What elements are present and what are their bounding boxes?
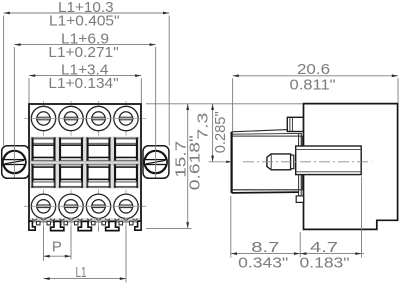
dimension L1+6.9 / L1+0.271in [14,44,155,46]
svg-text:0.811": 0.811" [290,77,336,94]
svg-text:L1+0.271": L1+0.271" [48,44,118,61]
pole 3 lower clamp box [87,165,110,188]
front view bottom rail band [30,218,140,222]
dimension P [44,255,72,257]
svg-text:0.618": 0.618" [187,135,204,190]
dimension L1+10.3 / L1+0.405in [4,12,170,14]
pole 3 bottom screw [86,194,110,218]
centerline leader arrow [209,161,232,163]
side view pin collar [291,155,294,169]
front view body outline [29,104,141,221]
pole 4 bottom screw [114,194,138,218]
side view plug body face [232,136,303,190]
dimension L1+3.4 / L1+0.134in [29,75,141,77]
pole 1 top screw [31,106,55,130]
bottom screw row horizontal centerline [24,205,146,207]
pole 1 vertical centerline (bottom) [43,190,45,226]
pole 2 bottom screw [59,194,83,218]
pole 2 bottom latch tabs [64,221,68,225]
mounting foot 3 [106,221,119,230]
side view plug left edge [231,132,233,193]
pole 1 upper clamp box [32,138,55,161]
svg-text:L1+0.405": L1+0.405" [49,13,120,30]
pole 3 top screw [86,106,110,130]
mounting foot 2 [78,221,91,230]
side view bottom step nub [296,196,303,203]
pole 4 vertical centerline (top) [125,101,127,136]
front view clamp region background [30,137,140,189]
svg-text:0.343": 0.343" [238,255,288,272]
pole 2 vertical centerline (top) [70,101,72,136]
pole 3 upper clamp box [87,138,110,161]
right flange screw [144,151,166,173]
dimension 7.3 / 0.285in [212,104,214,162]
right flange ear crosshair [143,161,168,163]
pole 2 top screw [59,106,83,130]
pole 4 bottom latch tabs [119,221,123,225]
pole 3 bottom latch tabs [92,221,96,225]
mounting foot 1 [51,221,64,230]
pole 1 vertical centerline (top) [43,101,45,136]
side view plug right edge lines [298,133,300,202]
side view housing block [304,104,398,230]
pole centerline extensions below [43,226,45,261]
pole 2 lower clamp box [59,165,82,188]
dimension L1 [44,278,127,280]
svg-text:0.285": 0.285" [212,111,229,153]
side view horizontal centerline [243,161,372,163]
svg-text:0.183": 0.183" [300,255,350,272]
right end foot hook [135,221,141,230]
pole 1 bottom latch tabs [37,221,41,225]
pole 3 vertical centerline (top) [98,101,100,136]
dimension 15.7 / 0.618in [187,104,189,229]
left flange screw [3,151,25,173]
side view plug bottom edge [232,189,299,191]
pole 4 top screw [114,106,138,130]
svg-text:L1+0.134": L1+0.134" [48,75,118,92]
pole 4 lower clamp box [114,165,137,188]
left flange ear crosshair [2,161,27,163]
pole 2 upper clamp box [59,138,82,161]
side view top latch tab [287,117,303,131]
left flange ear body [2,146,29,179]
front view body outline overdraw [29,104,141,221]
pole 3 vertical centerline (bottom) [98,190,100,226]
svg-text:L1: L1 [76,264,87,281]
pole 4 upper clamp box [114,138,137,161]
side view plug top sloped edge [232,130,288,132]
dimension 8.7-0.343in and 4.7-0.183in [231,253,364,255]
side view wire clamp body [296,146,362,175]
pole 1 lower clamp box [32,165,55,188]
svg-text:20.6: 20.6 [297,61,330,78]
pole 4 vertical centerline (bottom) [125,190,127,226]
front view clamp row divider lines [30,161,140,163]
side view clamp screw pin [267,154,291,170]
top screw row horizontal centerline [24,118,146,120]
dimension 20.6 / 0.811in [233,75,398,77]
svg-text:7.3: 7.3 [195,113,212,140]
pole 2 vertical centerline (bottom) [70,190,72,226]
svg-text:P: P [52,239,62,256]
pole 1 bottom screw [31,194,55,218]
right flange ear body [143,146,169,179]
left end foot hook [29,221,35,230]
